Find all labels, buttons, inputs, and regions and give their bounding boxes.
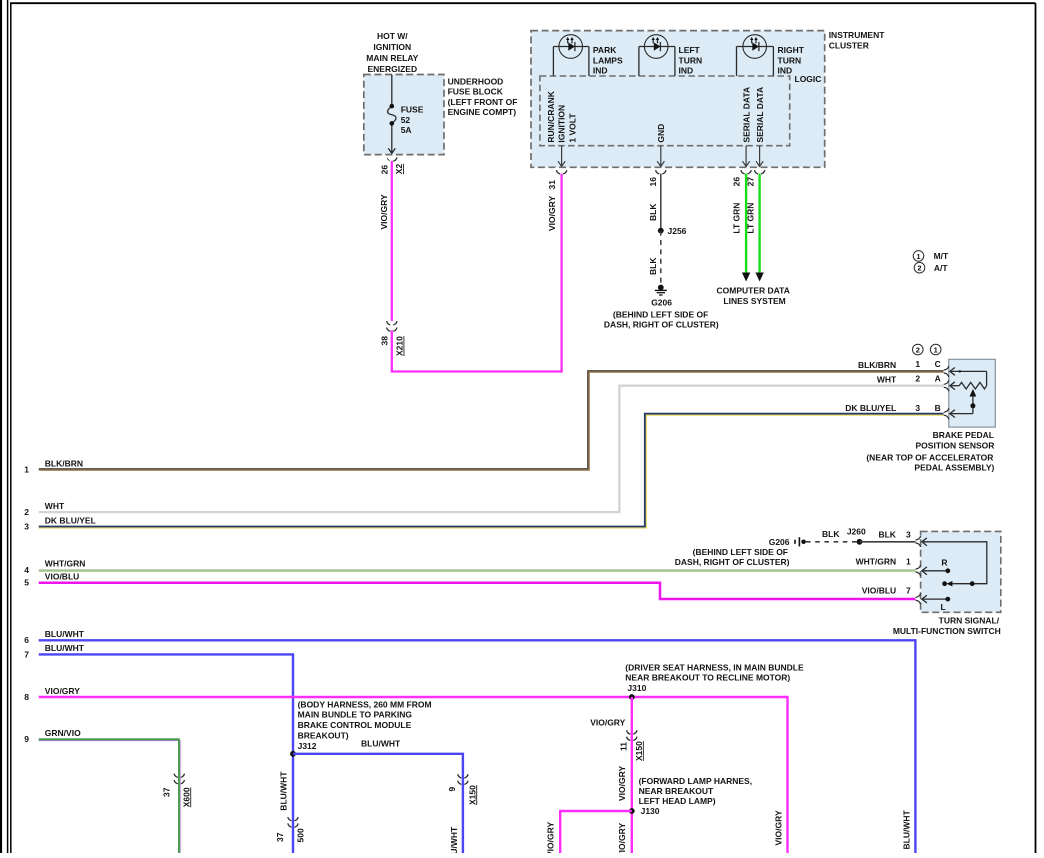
svg-text:1: 1 — [916, 252, 920, 261]
svg-text:HOT W/: HOT W/ — [377, 31, 408, 41]
svg-text:2: 2 — [917, 264, 921, 273]
switch internal: common from pin 3 — [922, 538, 987, 584]
svg-text:X150: X150 — [634, 741, 644, 761]
potentiometer resistor — [950, 382, 987, 390]
svg-text:MAIN RELAY: MAIN RELAY — [366, 53, 418, 63]
svg-text:26: 26 — [380, 165, 390, 175]
svg-text:J310: J310 — [627, 683, 646, 693]
svg-text:LINES SYSTEM: LINES SYSTEM — [723, 296, 785, 306]
svg-text:A/T: A/T — [934, 263, 949, 273]
svg-text:BLU/WHT: BLU/WHT — [902, 810, 912, 850]
svg-text:DASH, RIGHT OF CLUSTER): DASH, RIGHT OF CLUSTER) — [675, 557, 790, 567]
svg-text:VIO/GRY: VIO/GRY — [617, 766, 627, 801]
svg-text:38: 38 — [379, 336, 389, 346]
wire BLK dashed G206 to J260 — [806, 541, 860, 543]
svg-text:G206: G206 — [769, 537, 790, 547]
ground G206 — [655, 285, 667, 295]
note: body harness J312 — [298, 699, 432, 751]
svg-text:ENERGIZED: ENERGIZED — [368, 64, 418, 74]
svg-text:DASH, RIGHT OF CLUSTER): DASH, RIGHT OF CLUSTER) — [604, 320, 719, 330]
wire BLK cluster pin 16 to J256 — [660, 174, 662, 231]
svg-text:ENGINE COMPT): ENGINE COMPT) — [448, 107, 517, 117]
wire row8 VIO/GRY to J310 and bottom — [39, 697, 788, 853]
svg-text:VIO/GRY: VIO/GRY — [545, 822, 555, 853]
svg-text:CLUSTER: CLUSTER — [829, 40, 869, 50]
svg-text:(LEFT FRONT OF: (LEFT FRONT OF — [448, 97, 518, 107]
svg-text:J130: J130 — [641, 806, 660, 816]
svg-text:BLU/WHT: BLU/WHT — [361, 739, 401, 749]
svg-text:2: 2 — [916, 346, 920, 355]
svg-text:BLK: BLK — [648, 257, 658, 275]
legend note 2 A/T — [914, 262, 948, 273]
svg-text:UNDERHOOD: UNDERHOOD — [448, 77, 504, 87]
svg-text:2: 2 — [915, 374, 920, 384]
wire VIO/GRY J130 left branch to bottom — [560, 811, 632, 853]
svg-text:WHT/GRN: WHT/GRN — [45, 558, 86, 568]
svg-text:BREAKOUT): BREAKOUT) — [298, 731, 349, 741]
connector X2 pin 26 — [387, 157, 391, 161]
svg-text:3: 3 — [24, 522, 29, 532]
svg-text:SERIAL DATA: SERIAL DATA — [741, 87, 751, 143]
svg-text:FUSE: FUSE — [401, 105, 424, 115]
splice J260 — [857, 539, 863, 545]
svg-text:VIO/BLU: VIO/BLU — [45, 572, 79, 582]
sensor pin letters — [915, 359, 940, 413]
splice J130 — [629, 808, 635, 814]
svg-text:PARK: PARK — [593, 45, 617, 55]
svg-text:(FORWARD LAMP HARNES,: (FORWARD LAMP HARNES, — [639, 776, 753, 786]
cluster pin exit arrows — [558, 146, 763, 167]
svg-text:J256: J256 — [668, 226, 687, 236]
svg-text:WHT: WHT — [45, 501, 65, 511]
svg-text:L: L — [940, 602, 945, 612]
svg-text:X210: X210 — [395, 336, 405, 356]
wire LT GRN pin 26 — [745, 174, 747, 274]
svg-text:R: R — [941, 558, 947, 568]
svg-text:6: 6 — [24, 635, 29, 645]
svg-text:WHT: WHT — [877, 374, 897, 384]
svg-text:LAMPS: LAMPS — [593, 55, 623, 65]
wire BLK dashed J256 to G206 — [660, 231, 662, 285]
wire BLK J260 to switch pin 3 — [860, 541, 916, 543]
wire BLU/WHT J312 to X150 branch — [293, 754, 463, 853]
svg-text:IGNITION: IGNITION — [557, 105, 567, 143]
note: driver seat harness J310 — [625, 662, 804, 692]
connector X600 pin 37 — [174, 774, 184, 784]
cluster pin connectors 31 / 16 / 26 / 27 — [556, 170, 764, 174]
svg-text:LEFT: LEFT — [679, 45, 701, 55]
svg-text:500: 500 — [295, 828, 305, 842]
svg-text:2: 2 — [24, 507, 29, 517]
connector X210 pin 38 — [387, 321, 397, 331]
svg-text:IGNITION: IGNITION — [373, 42, 411, 52]
sensor internal: pin C feed — [950, 368, 987, 386]
svg-text:1: 1 — [24, 464, 29, 474]
logic box — [540, 76, 790, 146]
wire VIO/GRY fuse to cluster pin 31 — [392, 161, 562, 372]
svg-text:BLU/WHT: BLU/WHT — [449, 826, 459, 853]
svg-text:37: 37 — [162, 787, 172, 797]
svg-text:C: C — [935, 359, 941, 369]
svg-text:52: 52 — [401, 115, 411, 125]
svg-text:1 VOLT: 1 VOLT — [567, 113, 577, 143]
svg-text:X150: X150 — [467, 785, 477, 805]
svg-text:TURN: TURN — [679, 55, 703, 65]
svg-text:J312: J312 — [298, 741, 317, 751]
svg-text:VIO/GRY: VIO/GRY — [774, 810, 784, 845]
svg-text:RUN/CRANK: RUN/CRANK — [546, 90, 556, 142]
label: HOT W/ IGNITION MAIN RELAY ENERGIZED — [366, 31, 418, 74]
svg-text:1: 1 — [906, 556, 911, 566]
svg-text:26: 26 — [731, 177, 741, 187]
instrument cluster (outer box) — [531, 31, 825, 168]
fuse 52 5A — [388, 75, 396, 154]
svg-text:LOGIC: LOGIC — [795, 74, 822, 84]
svg-text:M/T: M/T — [934, 251, 949, 261]
note: forward lamp harness J130 — [639, 776, 753, 806]
wire row5 VIO/BLU to switch pin 7 — [39, 583, 916, 599]
svg-text:IND: IND — [679, 66, 694, 76]
svg-text:BLK: BLK — [878, 530, 896, 540]
svg-text:BLU/WHT: BLU/WHT — [45, 629, 85, 639]
svg-text:GND: GND — [656, 124, 666, 143]
svg-text:IND: IND — [778, 66, 793, 76]
svg-text:16: 16 — [648, 177, 658, 187]
svg-text:G206: G206 — [651, 298, 672, 308]
svg-text:MULTI-FUNCTION SWITCH: MULTI-FUNCTION SWITCH — [893, 626, 1001, 636]
svg-text:7: 7 — [24, 649, 29, 659]
LED indicator U2: LEFT TURN IND — [639, 35, 675, 76]
svg-text:LEFT HEAD LAMP): LEFT HEAD LAMP) — [639, 796, 716, 806]
svg-text:1: 1 — [915, 359, 920, 369]
splice J256 — [658, 228, 664, 234]
svg-text:BRAKE PEDAL: BRAKE PEDAL — [933, 430, 994, 440]
sensor wire labels — [845, 360, 897, 413]
ground G206 (left of J260) — [795, 537, 806, 546]
svg-text:SERIAL DATA: SERIAL DATA — [755, 87, 765, 143]
svg-text:NEAR BREAKOUT: NEAR BREAKOUT — [639, 786, 714, 796]
svg-text:9: 9 — [447, 787, 457, 792]
svg-text:INSTRUMENT: INSTRUMENT — [829, 30, 886, 40]
wire row3 DK BLU/YEL to sensor pin B — [39, 414, 944, 528]
svg-text:(BODY HARNESS, 260 MM FROM: (BODY HARNESS, 260 MM FROM — [298, 699, 432, 709]
label: UNDERHOOD FUSE BLOCK (LEFT FRONT OF ENGINE COMPT) — [448, 77, 518, 118]
svg-text:4: 4 — [24, 565, 29, 575]
svg-text:VIO/GRY: VIO/GRY — [617, 823, 627, 853]
computer data lines arrows — [742, 273, 750, 282]
svg-text:BLK/BRN: BLK/BRN — [858, 360, 896, 370]
svg-text:COMPUTER DATA: COMPUTER DATA — [717, 286, 790, 296]
svg-text:BLK/BRN: BLK/BRN — [45, 458, 83, 468]
svg-text:(BEHIND LEFT SIDE OF: (BEHIND LEFT SIDE OF — [693, 547, 788, 557]
svg-text:POSITION SENSOR: POSITION SENSOR — [916, 441, 995, 451]
underhood fuse block (box) — [364, 75, 444, 155]
svg-text:1: 1 — [934, 346, 938, 355]
switch caption — [893, 616, 1001, 636]
svg-text:TURN: TURN — [778, 55, 802, 65]
svg-text:(BEHIND LEFT SIDE OF: (BEHIND LEFT SIDE OF — [613, 309, 708, 319]
svg-text:BRAKE CONTROL MODULE: BRAKE CONTROL MODULE — [298, 720, 412, 730]
svg-text:LT GRN: LT GRN — [731, 203, 741, 234]
wire row2 WHT to sensor pin A — [39, 386, 944, 512]
svg-text:WHT/GRN: WHT/GRN — [856, 556, 897, 566]
svg-text:5: 5 — [24, 578, 29, 588]
LED indicator U1: PARK LAMPS IND — [553, 35, 589, 76]
svg-text:PEDAL ASSEMBLY): PEDAL ASSEMBLY) — [914, 463, 994, 473]
svg-text:B: B — [935, 403, 941, 413]
switch internal: L contact — [922, 595, 948, 603]
svg-text:RIGHT: RIGHT — [778, 45, 805, 55]
turn signal / multi-function switch (box) — [921, 531, 1001, 612]
connector X150 pin 11 — [627, 730, 637, 740]
svg-text:NEAR BREAKOUT TO RECLINE MOTOR: NEAR BREAKOUT TO RECLINE MOTOR) — [625, 673, 790, 683]
svg-text:VIO/GRY: VIO/GRY — [547, 196, 557, 231]
svg-text:J260: J260 — [847, 527, 866, 537]
svg-text:BLK: BLK — [648, 203, 658, 221]
LED indicator U3: RIGHT TURN IND — [737, 35, 774, 76]
svg-text:31: 31 — [547, 180, 557, 190]
sensor pin connectors C/A/B — [944, 366, 949, 419]
connector X150 pin 9 — [458, 774, 468, 784]
svg-text:5A: 5A — [401, 125, 412, 135]
svg-text:37: 37 — [275, 832, 285, 842]
legend note 1 M/T — [913, 251, 949, 262]
wire row4 WHT/GRN to switch pin 1 — [39, 570, 916, 571]
svg-text:BLK: BLK — [822, 529, 840, 539]
wire VIO/GRY J310 down to J130 — [631, 697, 633, 853]
svg-text:VIO/GRY: VIO/GRY — [590, 718, 625, 728]
svg-text:3: 3 — [915, 403, 920, 413]
svg-text:TURN SIGNAL/: TURN SIGNAL/ — [939, 616, 1000, 626]
svg-text:(NEAR TOP OF ACCELERATOR: (NEAR TOP OF ACCELERATOR — [866, 452, 993, 462]
wire row7 BLU/WHT to J312 — [39, 654, 293, 853]
svg-text:BLU/WHT: BLU/WHT — [278, 771, 288, 811]
svg-text:MAIN BUNDLE TO PARKING: MAIN BUNDLE TO PARKING — [298, 710, 413, 720]
svg-text:DK BLU/YEL: DK BLU/YEL — [45, 516, 96, 526]
wire row9 GRN/VIO to bottom — [39, 739, 180, 853]
svg-text:X600: X600 — [181, 787, 191, 807]
svg-text:BLU/WHT: BLU/WHT — [45, 643, 85, 653]
svg-text:7: 7 — [906, 585, 911, 595]
sensor caption — [866, 430, 994, 472]
svg-text:3: 3 — [906, 530, 911, 540]
svg-text:VIO/GRY: VIO/GRY — [379, 194, 389, 229]
wire LT GRN pin 27 — [758, 174, 760, 274]
circled 2 / 1 above sensor pins — [913, 344, 924, 355]
svg-text:VIO/BLU: VIO/BLU — [862, 585, 896, 595]
svg-text:9: 9 — [24, 734, 29, 744]
label: INSTRUMENT CLUSTER — [829, 30, 886, 50]
svg-text:(DRIVER SEAT HARNESS, IN MAIN: (DRIVER SEAT HARNESS, IN MAIN BUNDLE — [625, 662, 804, 672]
svg-text:IND: IND — [593, 66, 608, 76]
svg-text:X2: X2 — [394, 164, 404, 175]
wire row1 BLK/BRN to sensor pin C — [39, 371, 944, 470]
brake pedal position sensor (box) — [949, 359, 996, 427]
splice J312 — [290, 751, 296, 757]
connector 500 pin 37 — [288, 817, 298, 827]
svg-text:VIO/GRY: VIO/GRY — [45, 686, 80, 696]
svg-text:8: 8 — [24, 692, 29, 702]
svg-text:11: 11 — [619, 742, 629, 751]
svg-text:DK BLU/YEL: DK BLU/YEL — [845, 403, 896, 413]
switch pin connectors 3/1/7 — [916, 536, 921, 604]
svg-text:GRN/VIO: GRN/VIO — [45, 728, 81, 738]
svg-text:A: A — [935, 374, 941, 384]
svg-text:FUSE BLOCK: FUSE BLOCK — [448, 87, 504, 97]
potentiometer wiper — [950, 394, 973, 418]
wire row6 BLU/WHT to bottom right — [39, 640, 916, 853]
switch internal: R contact — [922, 567, 948, 575]
splice J310 — [629, 694, 635, 700]
